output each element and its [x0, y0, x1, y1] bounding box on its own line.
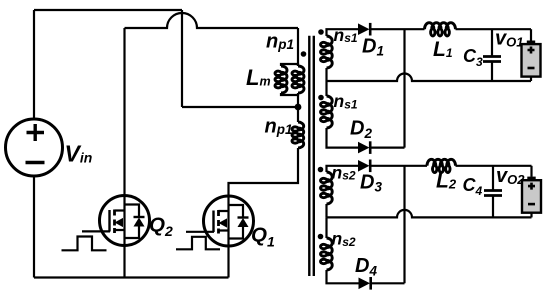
capacitor C3 plates	[483, 57, 501, 62]
MOSFET Q2 body diode branch	[125, 205, 140, 239]
capacitor C4 top lead	[492, 166, 494, 190]
wire: battery VO1 bottom lead	[530, 77, 532, 81]
transformer secondary winding ns2b coil	[321, 238, 333, 270]
wire: D3 cathode to L2	[371, 165, 428, 167]
wire: L2 to output node	[456, 165, 532, 167]
transformer core bars	[309, 36, 314, 276]
wire: secondary ns1a top lead and D1 anode line	[327, 29, 359, 36]
node: ns1b polarity dot	[318, 95, 324, 101]
MOSFET Q2 channel segments	[113, 210, 116, 234]
battery VO2 body	[522, 180, 541, 213]
wire: secondary ns2a top lead and D3 anode line	[327, 166, 359, 172]
voltage source Vin plus sign	[27, 124, 45, 141]
wire: D1/D2 junction vertical	[403, 29, 405, 147]
inductor L2 coil	[427, 159, 456, 172]
wire: ns1b top lead	[325, 81, 327, 96]
MOSFET Q2 body diode triangle	[134, 218, 145, 227]
capacitor C4 plates	[484, 191, 502, 196]
MOSFET Q2 body diode cathode bar	[134, 216, 145, 218]
wire: top rail from Vin+	[34, 9, 182, 11]
battery VO2 minus mark	[528, 203, 535, 206]
transformer secondary winding ns1b coil	[321, 96, 333, 128]
battery VO2 terminal cap	[527, 177, 535, 181]
gate pulse waveform for Q1	[176, 237, 220, 250]
diode D1 triangle	[358, 23, 370, 35]
wire: Vin negative lead	[33, 176, 35, 278]
battery VO1 minus mark	[528, 67, 535, 70]
inductor Lm magnetizing coil	[275, 66, 287, 93]
wire: Lm parallel bottom connector	[281, 93, 298, 95]
wire: D1 cathode to L1	[371, 28, 425, 30]
transformer secondary winding ns1a coil	[321, 36, 333, 68]
wire: horizontal center tap feed	[182, 106, 298, 108]
wire: Q2 gate lead	[82, 230, 110, 232]
MOSFET Q2 drain/source inner connections	[115, 196, 125, 246]
wire: ns2a to center tap 2	[325, 204, 327, 217]
capacitor C3 top lead	[491, 29, 493, 56]
wire: primary top lead	[297, 28, 299, 66]
wire: Lm parallel top connector	[281, 64, 298, 66]
wire: battery VO1 top lead	[530, 29, 532, 40]
transformer secondary winding ns2a coil	[321, 172, 333, 204]
wire: Q2 drain vertical	[123, 28, 125, 196]
diode D4 cathode bar	[369, 277, 372, 290]
MOSFET Q2 body circle	[100, 196, 150, 246]
wire: ns1b bottom lead and D2 anode line	[327, 128, 359, 148]
MOSFET Q1 body diode triangle	[238, 218, 249, 227]
MOSFET Q1 substrate arrow	[219, 218, 228, 227]
wire: bottom ground rail	[34, 276, 229, 278]
wire: Q1 gate lead	[186, 231, 214, 233]
diode D1 cathode bar	[369, 23, 372, 36]
diode D3 cathode bar	[369, 160, 372, 173]
node: ns1a polarity dot	[318, 29, 324, 35]
wire: Q2 source to ground rail	[123, 246, 125, 278]
battery VO2 plus mark	[528, 183, 535, 190]
transformer primary winding np1 upper coil	[292, 66, 304, 93]
wire: primary mid lead	[297, 95, 299, 122]
battery VO1 plus mark	[528, 47, 535, 54]
node: ns2a polarity dot	[318, 167, 324, 173]
voltage source Vin circle	[6, 119, 63, 176]
wire: battery VO2 bottom lead	[530, 212, 532, 217]
wire: ns2b bottom lead and D4 anode line	[327, 270, 359, 283]
MOSFET Q1 drain/source inner connections	[219, 196, 229, 246]
capacitor C3 bottom lead	[491, 62, 493, 82]
wire: Vin positive lead	[33, 10, 35, 119]
wire: output1 return line with crossover hop	[327, 74, 532, 82]
wire: vertical drop to center tap feed	[181, 10, 183, 107]
wire: Q1 source to ground rail	[227, 246, 229, 278]
capacitor C4 bottom lead	[492, 196, 494, 218]
voltage source Vin minus sign	[26, 161, 45, 165]
node: primary winding polarity dot	[301, 51, 307, 57]
MOSFET Q1 channel segments	[217, 210, 220, 234]
wire: L1 to output node	[456, 28, 532, 30]
battery VO1 terminal cap	[527, 41, 535, 45]
node: ns2b polarity dot	[318, 234, 324, 240]
gate pulse waveform for Q2	[62, 237, 107, 251]
wire: Q2 drain branch with crossover hop	[125, 13, 299, 28]
wire: D2 cathode to junction	[371, 147, 405, 149]
wire: output2 return line with crossover hop	[327, 210, 532, 217]
wire: D4 cathode to junction	[371, 282, 405, 284]
diode D2 triangle	[358, 142, 370, 154]
node: primary center tap junction dot	[295, 104, 302, 111]
MOSFET Q1 body diode branch	[229, 205, 244, 239]
wire: D3/D4 junction vertical	[403, 166, 405, 283]
MOSFET Q2 substrate arrow	[115, 218, 124, 227]
wire: ns1a to center tap	[325, 68, 327, 81]
MOSFET Q1 body circle	[204, 196, 254, 246]
transformer primary winding np1 lower coil	[292, 122, 304, 148]
MOSFET Q1 body diode cathode bar	[238, 216, 249, 218]
diode D3 triangle	[358, 160, 370, 172]
inductor L1 coil	[425, 23, 456, 36]
wire: primary bottom lead to Q1 drain	[229, 148, 299, 196]
wire: battery VO2 top lead	[530, 166, 532, 177]
battery VO1 body	[522, 44, 541, 77]
wire: ns2b top lead	[325, 217, 327, 238]
MOSFET Q2 gate bar	[108, 210, 110, 232]
MOSFET Q1 gate bar	[212, 211, 214, 233]
diode D2 cathode bar	[369, 141, 372, 154]
diode D4 triangle	[359, 278, 371, 290]
